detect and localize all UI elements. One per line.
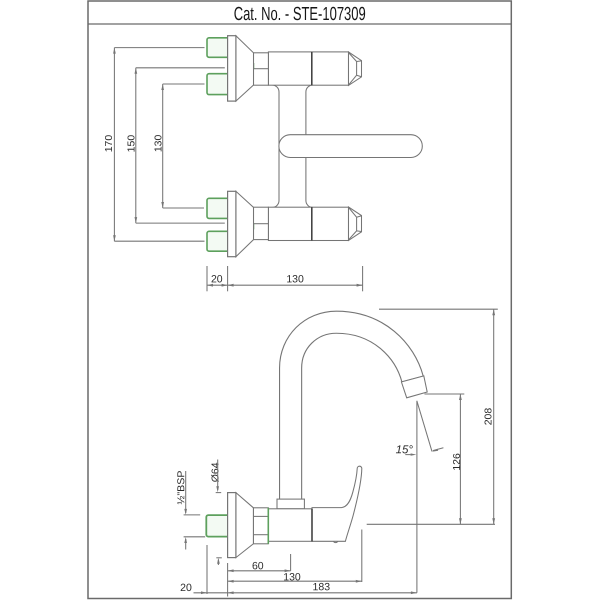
svg-text:208: 208 [483,408,495,426]
svg-text:Cat. No. - STE-107309: Cat. No. - STE-107309 [234,4,366,25]
svg-text:130: 130 [152,134,164,152]
svg-text:126: 126 [451,453,463,471]
svg-text:20: 20 [180,582,192,594]
svg-text:20: 20 [211,273,223,285]
svg-text:Ø64: Ø64 [209,462,221,482]
svg-text:130: 130 [283,571,301,583]
svg-text:60: 60 [252,560,264,572]
svg-text:150: 150 [126,135,138,153]
svg-text:170: 170 [103,135,115,153]
svg-text:183: 183 [313,581,331,593]
svg-text:130: 130 [286,273,304,285]
